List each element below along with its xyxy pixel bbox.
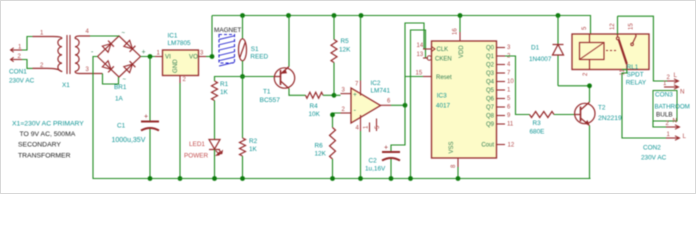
svg-text:R6: R6 bbox=[315, 143, 324, 150]
wire C2 branch bbox=[391, 105, 405, 178]
svg-text:1: 1 bbox=[40, 31, 44, 37]
svg-text:1: 1 bbox=[507, 88, 511, 94]
svg-text:14: 14 bbox=[417, 43, 424, 49]
svg-text:CON1: CON1 bbox=[9, 69, 27, 76]
svg-text:Q3: Q3 bbox=[486, 71, 495, 77]
svg-text:GND: GND bbox=[172, 59, 179, 73]
wire IC2 out to node bbox=[391, 104, 405, 106]
svg-text:~: ~ bbox=[122, 31, 126, 37]
svg-text:13: 13 bbox=[417, 52, 424, 58]
junction rail T1e bbox=[286, 13, 291, 18]
svg-text:IC1: IC1 bbox=[168, 33, 178, 40]
wire CON1 pin1 to X1 primary top bbox=[22, 37, 33, 51]
wire IC1 VO to rail bbox=[206, 16, 212, 57]
bridge rectifier BR1 bbox=[91, 31, 146, 84]
svg-text:Q8: Q8 bbox=[486, 114, 495, 120]
svg-text:1N4007: 1N4007 bbox=[529, 56, 552, 63]
junction pin4 rail bbox=[358, 176, 363, 181]
svg-text:6: 6 bbox=[507, 105, 511, 111]
svg-text:VDD: VDD bbox=[459, 45, 465, 58]
label CON2 230V AC bbox=[641, 145, 667, 162]
junction GND rail bbox=[178, 176, 183, 181]
svg-text:Q0: Q0 bbox=[486, 46, 495, 52]
wire relay contact to lamp L bbox=[618, 16, 668, 81]
wire T2 emitter down bbox=[590, 126, 591, 179]
resistor R6 bbox=[315, 128, 336, 160]
label BR1 1A bbox=[114, 84, 127, 103]
wire IC1 GND down bbox=[179, 83, 181, 179]
wire T1 collector down bbox=[289, 89, 306, 96]
svg-text:1K: 1K bbox=[220, 89, 229, 96]
svg-text:TRANSFORMER: TRANSFORMER bbox=[18, 152, 71, 159]
wire X1 pin3 to BR1 bottom (AC) bbox=[90, 74, 119, 85]
svg-text:BATHROOM: BATHROOM bbox=[655, 104, 690, 111]
wire VDD to rail bbox=[459, 16, 461, 33]
resistor R4 bbox=[306, 92, 324, 118]
svg-text:16: 16 bbox=[453, 28, 459, 35]
svg-text:+: + bbox=[353, 91, 357, 98]
svg-text:3: 3 bbox=[342, 88, 346, 94]
svg-text:+: + bbox=[384, 145, 388, 152]
junction R6 rail bbox=[330, 176, 335, 181]
svg-text:R4: R4 bbox=[310, 103, 319, 110]
wire relay common down bbox=[622, 69, 627, 71]
reed switch S1 bbox=[239, 39, 269, 61]
wire R4 to junction bbox=[323, 94, 334, 96]
svg-text:15: 15 bbox=[416, 71, 423, 77]
resistor R1 bbox=[212, 81, 229, 101]
wire BR1 minus to ground rail bbox=[93, 57, 150, 179]
connector CON3 bathroom bulb bbox=[653, 81, 690, 121]
svg-text:VO: VO bbox=[189, 54, 198, 61]
svg-text:CON2: CON2 bbox=[643, 145, 661, 152]
wire CON1 pin2 to X1 primary bottom bbox=[22, 60, 33, 69]
svg-text:-: - bbox=[91, 49, 94, 56]
svg-text:+: + bbox=[142, 49, 146, 56]
svg-text:5: 5 bbox=[582, 26, 588, 30]
svg-text:Q9: Q9 bbox=[486, 122, 495, 128]
svg-text:Q7: Q7 bbox=[486, 105, 495, 111]
wire R6 to rail bbox=[332, 159, 334, 179]
junction LED1 rail bbox=[212, 176, 217, 181]
junction VO bbox=[210, 54, 215, 59]
svg-text:11: 11 bbox=[507, 122, 514, 128]
svg-text:2N2219: 2N2219 bbox=[598, 115, 622, 122]
transistor T2 2N2219 bbox=[575, 102, 623, 126]
wire R5 branch bbox=[333, 16, 335, 96]
wire C1 branch bbox=[149, 57, 151, 179]
svg-text:REED: REED bbox=[250, 54, 268, 61]
svg-text:~: ~ bbox=[123, 77, 127, 83]
svg-text:Q1: Q1 bbox=[486, 54, 495, 60]
relay RL1 bbox=[572, 23, 649, 76]
capacitor C1 bbox=[112, 114, 160, 145]
svg-text:MAGNET: MAGNET bbox=[214, 27, 241, 34]
svg-text:R3: R3 bbox=[533, 120, 542, 127]
svg-text:1000u,35V: 1000u,35V bbox=[112, 137, 146, 144]
wire D1 branch bbox=[558, 16, 590, 86]
wire VSS to rail bbox=[457, 167, 459, 179]
wire node to CLK bbox=[405, 23, 432, 105]
transistor T1 BC557 bbox=[260, 67, 295, 105]
svg-text:VI: VI bbox=[165, 54, 171, 61]
svg-text:2: 2 bbox=[583, 72, 589, 76]
junction node rect-out bbox=[148, 54, 153, 59]
wire X1 pin4 to BR1 top bbox=[90, 35, 119, 37]
junction base node bbox=[240, 74, 245, 79]
svg-text:POWER: POWER bbox=[184, 153, 209, 160]
svg-text:1A: 1A bbox=[115, 96, 124, 103]
regulator IC1 LM7805 bbox=[155, 50, 206, 83]
junction rail IC2p7 bbox=[359, 13, 364, 18]
resistor R3 bbox=[530, 112, 555, 136]
wire R3 to T2 base bbox=[554, 114, 575, 116]
junction rail VDD bbox=[458, 13, 463, 18]
svg-text:N: N bbox=[680, 89, 684, 96]
wire +V top rail bbox=[212, 16, 591, 35]
wire pin2 to R6 bbox=[333, 113, 341, 128]
svg-text:CLK: CLK bbox=[437, 47, 449, 53]
svg-text:3: 3 bbox=[507, 45, 511, 51]
label RL1 SPDT RELAY bbox=[626, 64, 647, 86]
svg-text:CON3: CON3 bbox=[655, 92, 673, 99]
svg-text:N: N bbox=[673, 118, 677, 125]
svg-text:2: 2 bbox=[342, 107, 346, 113]
svg-text:SPDT: SPDT bbox=[627, 72, 644, 79]
svg-text:X1: X1 bbox=[62, 82, 70, 89]
svg-text:12K: 12K bbox=[339, 47, 351, 54]
svg-text:2: 2 bbox=[183, 77, 187, 83]
svg-text:2: 2 bbox=[666, 121, 670, 127]
wire junction to pin3 bbox=[334, 94, 341, 96]
svg-text:1K: 1K bbox=[249, 146, 258, 153]
wire ground rail bbox=[93, 178, 591, 180]
svg-text:IC3: IC3 bbox=[437, 93, 447, 100]
svg-text:VSS: VSS bbox=[449, 141, 455, 153]
svg-text:1u,16V: 1u,16V bbox=[365, 166, 386, 173]
wire Q1 to R3 bbox=[505, 56, 530, 115]
connector pin lamp L bbox=[667, 72, 679, 83]
svg-text:12: 12 bbox=[610, 23, 616, 30]
svg-text:4: 4 bbox=[507, 62, 511, 68]
svg-text:BULB: BULB bbox=[656, 112, 673, 119]
svg-text:Q5: Q5 bbox=[486, 88, 495, 94]
svg-text:IC2: IC2 bbox=[371, 80, 381, 87]
svg-text:6: 6 bbox=[387, 99, 391, 105]
svg-text:9: 9 bbox=[507, 113, 511, 119]
svg-text:TO 9V AC, 500MA: TO 9V AC, 500MA bbox=[20, 131, 76, 138]
wire CON3 bottom to pin bbox=[653, 121, 666, 127]
svg-text:7: 7 bbox=[507, 71, 511, 77]
svg-text:8: 8 bbox=[451, 164, 457, 168]
svg-text:230V AC: 230V AC bbox=[641, 155, 667, 162]
label IC1 LM7805 bbox=[168, 33, 192, 48]
magnet bbox=[214, 27, 241, 66]
junction rail S1 bbox=[240, 13, 245, 18]
svg-text:15: 15 bbox=[629, 23, 635, 30]
svg-text:680E: 680E bbox=[530, 129, 545, 136]
junction R2 rail bbox=[240, 176, 245, 181]
note transformer spec bbox=[12, 121, 84, 160]
svg-text:S1: S1 bbox=[251, 46, 259, 53]
junction CKEN rail bbox=[408, 176, 413, 181]
svg-text:C1: C1 bbox=[117, 123, 126, 130]
svg-text:Reset: Reset bbox=[436, 75, 452, 81]
svg-text:RL1: RL1 bbox=[627, 64, 639, 71]
junction coil bottom bbox=[587, 83, 592, 88]
svg-text:T1: T1 bbox=[263, 89, 271, 96]
wire common to CON2 L bbox=[622, 70, 666, 139]
svg-text:LED1: LED1 bbox=[189, 141, 205, 148]
wire IC2 pin4 to rail bbox=[360, 131, 362, 179]
wire base node down to R2 bbox=[242, 77, 244, 139]
svg-text:4017: 4017 bbox=[436, 103, 451, 110]
svg-text:230V AC: 230V AC bbox=[9, 78, 35, 85]
svg-text:5: 5 bbox=[375, 125, 381, 129]
svg-text:3: 3 bbox=[200, 51, 204, 57]
junction C1 rail bbox=[148, 176, 153, 181]
connector pin CON2 L bbox=[666, 132, 687, 140]
svg-text:C2: C2 bbox=[369, 158, 378, 165]
svg-text:Q2: Q2 bbox=[486, 63, 495, 69]
counter IC3 4017 bbox=[416, 28, 515, 168]
svg-text:4: 4 bbox=[86, 29, 90, 35]
wire T2 collector up bbox=[589, 86, 591, 102]
wire R2 to rail bbox=[242, 156, 244, 179]
svg-text:T2: T2 bbox=[598, 105, 606, 112]
svg-text:L: L bbox=[683, 133, 687, 140]
svg-text:1: 1 bbox=[663, 81, 667, 87]
svg-text:10: 10 bbox=[507, 79, 514, 85]
svg-text:2: 2 bbox=[667, 75, 671, 81]
label IC2 LM741 bbox=[371, 80, 391, 95]
wire R1 to LED1 bbox=[214, 101, 216, 140]
wire BR1 plus to IC1 VI bbox=[141, 56, 163, 58]
svg-text:LM741: LM741 bbox=[371, 88, 391, 95]
svg-text:12K: 12K bbox=[315, 151, 327, 158]
svg-text:5: 5 bbox=[507, 96, 511, 102]
svg-text:Q4: Q4 bbox=[486, 80, 495, 86]
junction pin2 corner bbox=[330, 112, 335, 117]
diode D1 1N4007 bbox=[529, 45, 564, 64]
junction C2 rail bbox=[389, 176, 394, 181]
svg-text:12: 12 bbox=[508, 143, 515, 149]
svg-text:1: 1 bbox=[364, 125, 370, 129]
resistor R5 bbox=[331, 38, 351, 63]
svg-text:+: + bbox=[144, 114, 148, 121]
junction rail R5 bbox=[332, 13, 337, 18]
svg-text:SECONDARY: SECONDARY bbox=[18, 142, 61, 149]
wire LED1 to rail bbox=[214, 150, 216, 179]
svg-text:L: L bbox=[674, 72, 678, 79]
svg-text:Cout: Cout bbox=[481, 143, 494, 149]
svg-text:X1=230V AC PRIMARY: X1=230V AC PRIMARY bbox=[12, 121, 84, 128]
svg-text:1: 1 bbox=[667, 132, 671, 138]
wire base node left to R1 bbox=[215, 77, 243, 82]
svg-text:CKEN: CKEN bbox=[435, 57, 452, 63]
svg-text:RELAY: RELAY bbox=[626, 79, 647, 86]
capacitor C2 bbox=[365, 145, 400, 173]
wire relay NC contact to CON pin bbox=[617, 16, 619, 34]
connector pin CON2 N bbox=[666, 118, 680, 130]
svg-text:4: 4 bbox=[356, 126, 360, 132]
svg-text:BR1: BR1 bbox=[114, 84, 127, 91]
op-amp IC2 LM741 bbox=[341, 81, 392, 133]
svg-text:Q6: Q6 bbox=[486, 97, 495, 103]
wire S1 top bbox=[242, 16, 244, 39]
wire reset tap bbox=[405, 76, 432, 78]
wire IC2 pin7 to rail bbox=[360, 16, 362, 81]
wire base node to T1 base bbox=[243, 76, 275, 78]
resistor R2 bbox=[240, 138, 258, 156]
svg-text:BC557: BC557 bbox=[260, 97, 281, 104]
svg-text:R2: R2 bbox=[249, 138, 258, 145]
junction R5 R4 pin3 bbox=[332, 93, 337, 98]
svg-text:1: 1 bbox=[157, 51, 161, 57]
svg-text:3: 3 bbox=[86, 67, 90, 73]
svg-text:LM7805: LM7805 bbox=[168, 40, 192, 47]
junction out node bbox=[403, 103, 408, 108]
wire S1 bottom to base node bbox=[242, 61, 244, 77]
wire CKEN bbox=[411, 30, 429, 179]
led LED1 bbox=[184, 140, 222, 160]
wire T1 emitter up bbox=[288, 16, 290, 67]
svg-text:7: 7 bbox=[355, 82, 359, 88]
svg-text:R5: R5 bbox=[341, 38, 350, 45]
connector CON1 bbox=[9, 45, 35, 85]
junction VSS rail bbox=[456, 176, 461, 181]
svg-text:10K: 10K bbox=[309, 111, 321, 118]
svg-text:R1: R1 bbox=[220, 81, 229, 88]
transformer X1 bbox=[33, 29, 91, 89]
junction rail D1 bbox=[556, 13, 561, 18]
svg-text:D1: D1 bbox=[531, 45, 540, 52]
